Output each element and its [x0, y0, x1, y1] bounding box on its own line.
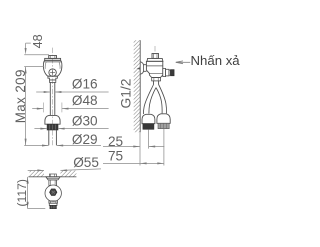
- side view right spud nut (gray): [158, 123, 169, 128]
- dim Ø30 line: [34, 128, 108, 130]
- svg-text:G1/2: G1/2: [118, 79, 133, 109]
- dim Max 209 line: [25, 67, 27, 146]
- extension line spud bottom: [28, 208, 46, 210]
- extension line button top: [24, 54, 49, 56]
- extension line inlet centerline: [24, 66, 44, 68]
- side view top button: [152, 54, 159, 59]
- svg-text:Ø16: Ø16: [72, 77, 98, 92]
- front view supply tube: [50, 82, 55, 115]
- dim Ø48 line: [32, 108, 108, 110]
- svg-text:75: 75: [108, 149, 123, 164]
- plan view wall line: [28, 176, 76, 178]
- side view push button: [163, 69, 166, 77]
- front view adjusting screw: [49, 69, 56, 76]
- front view spud pipe: [49, 130, 57, 145]
- dim Ø16 line: [36, 91, 108, 93]
- plan view spud steps: [49, 201, 58, 203]
- plan view inlet pipe stub through wall: [49, 174, 56, 177]
- svg-text:Ø30: Ø30: [72, 114, 98, 129]
- front view push button: [49, 56, 57, 59]
- side view wall line: [139, 40, 141, 132]
- dim 25 line: [103, 146, 164, 148]
- front view top plate: [45, 58, 61, 60]
- side view Y branch left: [143, 85, 153, 115]
- plan view Ø55 dimension line: [28, 169, 101, 171]
- G1/2 arrow: [137, 68, 140, 70]
- side view wall hatch: [134, 36, 141, 138]
- Nhấn xả leader arrow: [176, 61, 190, 63]
- dim Ø29 line: [24, 145, 101, 147]
- svg-text:(117): (117): [15, 179, 29, 207]
- plan view body circle: [45, 185, 61, 201]
- extension line wall bottom: [139, 132, 141, 165]
- front view body inner contours: [45, 62, 60, 69]
- side view down pipe: [154, 81, 159, 85]
- front view neck: [48, 76, 58, 80]
- extension line right outlet centerline: [163, 129, 165, 166]
- front view outlet dome: [45, 115, 60, 124]
- side view Y branch right: [159, 85, 167, 114]
- svg-text:Ø48: Ø48: [72, 93, 98, 108]
- side view left spud nut (dark): [143, 124, 154, 130]
- plan view neck: [49, 180, 57, 186]
- plan view spud knurl: [50, 205, 57, 208]
- svg-text:Nhấn xả: Nhấn xả: [191, 53, 241, 68]
- dim 48 leader and arrow: [26, 43, 31, 48]
- centerline side view: [154, 46, 156, 55]
- side view left outlet dome: [142, 114, 155, 123]
- dim (117) line: [27, 177, 29, 209]
- side view inlet flange: [140, 62, 143, 75]
- centerline front view: [52, 48, 54, 146]
- svg-text:Ø55: Ø55: [73, 155, 99, 170]
- plan view wall hatch: [25, 170, 79, 176]
- svg-text:Max 209: Max 209: [13, 69, 28, 123]
- front view valve body: [43, 60, 62, 76]
- extension line left outlet centerline: [148, 130, 150, 149]
- svg-text:25: 25: [108, 134, 123, 149]
- side view top plate: [147, 58, 163, 61]
- dim 75 line: [103, 162, 164, 164]
- side view body bottom nut: [152, 78, 161, 81]
- front view spud nut (dark ring): [47, 124, 58, 130]
- plan view flange: [46, 177, 60, 180]
- side view right outlet dome: [157, 114, 170, 124]
- svg-text:Ø29: Ø29: [72, 132, 98, 147]
- extension ticks Ø48: [43, 103, 62, 113]
- svg-text:48: 48: [31, 34, 45, 48]
- side view body: [146, 61, 162, 77]
- plan view hex nut: [50, 189, 57, 195]
